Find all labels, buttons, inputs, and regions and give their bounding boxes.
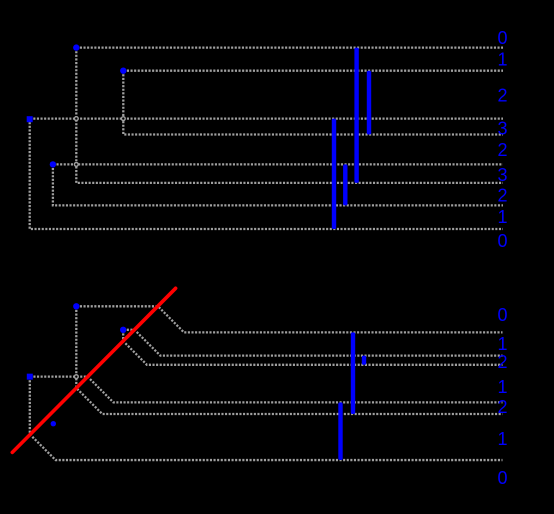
- bottom bar E: [351, 332, 355, 414]
- branch C birth line: [30, 117, 503, 119]
- svg-text:2: 2: [497, 185, 507, 205]
- svg-text:0: 0: [497, 305, 507, 325]
- node G square: [27, 374, 33, 380]
- svg-text:1: 1: [497, 50, 507, 70]
- node C square: [27, 116, 33, 122]
- branch G death polyline: [30, 377, 503, 460]
- branch G birth polyline: [30, 377, 503, 403]
- svg-text:1: 1: [497, 377, 507, 397]
- branch C vertical + death line: [30, 119, 503, 229]
- svg-text:0: 0: [497, 28, 507, 48]
- svg-text:1: 1: [497, 207, 507, 227]
- bottom panel: branch E birth polyline: [76, 306, 502, 332]
- bottom bar F: [362, 356, 366, 365]
- top panel: branch A birth line: [76, 46, 503, 48]
- crossing marker top 2: [121, 117, 125, 121]
- branch B birth line: [123, 70, 503, 72]
- branch E death polyline: [76, 306, 502, 414]
- node E dot: [73, 303, 79, 309]
- svg-text:2: 2: [497, 397, 507, 417]
- top bar C: [332, 119, 336, 229]
- svg-text:3: 3: [497, 118, 507, 138]
- red diagonal line: [12, 288, 175, 452]
- svg-text:1: 1: [497, 429, 507, 449]
- svg-text:1: 1: [497, 334, 507, 354]
- bottom bar G: [338, 402, 342, 460]
- branch F death polyline: [123, 330, 502, 365]
- crossing marker top 3: [74, 163, 78, 167]
- svg-text:2: 2: [497, 86, 507, 106]
- svg-text:2: 2: [497, 140, 507, 160]
- crossing marker bottom: [74, 375, 78, 379]
- branch D vertical + death line: [53, 164, 503, 205]
- branch A vertical + death line: [76, 48, 503, 183]
- node B dot: [120, 68, 126, 74]
- svg-text:2: 2: [497, 352, 507, 372]
- branch F birth polyline: [123, 330, 502, 356]
- branch B vertical + death line: [123, 71, 503, 135]
- node D dot: [50, 161, 56, 167]
- top bar A: [354, 48, 358, 183]
- node F dot: [120, 327, 126, 333]
- top bar D: [343, 164, 347, 205]
- node H dot: [51, 421, 56, 426]
- svg-text:0: 0: [497, 468, 507, 488]
- svg-text:3: 3: [497, 165, 507, 185]
- top bar B: [367, 71, 371, 135]
- svg-text:0: 0: [497, 231, 507, 251]
- node A dot: [73, 44, 79, 50]
- branch D birth line: [53, 163, 503, 165]
- crossing marker top 1: [74, 117, 78, 121]
